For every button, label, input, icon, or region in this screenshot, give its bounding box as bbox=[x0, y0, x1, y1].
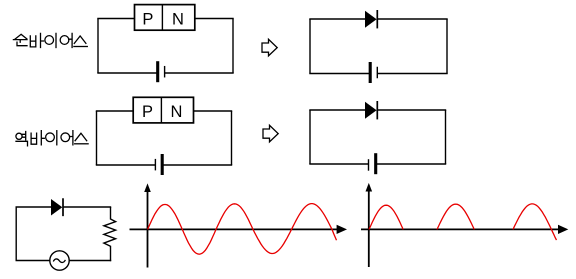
wire: circuit4 bottom-left segment bbox=[309, 163, 368, 165]
label: 순바이어스 (forward bias) bbox=[13, 33, 87, 47]
axis: right graph horizontal (x-axis with arrow) bbox=[361, 225, 568, 234]
svg-text:P: P bbox=[142, 103, 153, 121]
wire: circuit1 right side bbox=[232, 19, 234, 74]
wire: circuit4 top-left segment bbox=[309, 109, 365, 111]
AC source V1 bbox=[50, 251, 69, 270]
wire: circuit5 right-bottom segment bbox=[110, 246, 112, 261]
wire: circuit5 bottom-left segment bbox=[16, 260, 50, 262]
P-N junction box (circuit 1) bbox=[135, 5, 195, 31]
axis: right graph vertical (y-axis with arrow) bbox=[366, 183, 373, 267]
wire: circuit3 top-right segment bbox=[194, 110, 233, 112]
waveform: rectified output hump 3 with tail (red) bbox=[513, 204, 557, 240]
wire: circuit2 right side bbox=[446, 19, 448, 74]
wire: circuit5 top-left segment bbox=[16, 206, 52, 208]
wire: circuit5 top-right segment bbox=[63, 206, 111, 208]
wire: circuit5 left side bbox=[15, 207, 17, 261]
label: 역바이어스 (reverse bias) bbox=[16, 131, 88, 146]
wire: circuit4 top-right segment bbox=[378, 109, 447, 111]
wire: circuit4 right side bbox=[445, 110, 447, 164]
wire: circuit3 bottom-left segment bbox=[96, 164, 156, 166]
battery B2 (forward bias, + plate left) bbox=[370, 62, 377, 83]
block arrow (row 1) bbox=[262, 39, 277, 56]
wire: circuit1 top-right segment bbox=[195, 18, 234, 20]
P-N junction box (circuit 3) bbox=[133, 97, 193, 123]
wire: circuit1 bottom-right segment bbox=[165, 72, 234, 74]
battery B1 (forward bias, + plate left) bbox=[158, 61, 165, 82]
wire: circuit4 bottom-right segment bbox=[376, 163, 447, 165]
diode D3 (rectifier) bbox=[51, 198, 63, 216]
waveform: input sine wave (red) bbox=[148, 204, 337, 255]
svg-text:N: N bbox=[172, 11, 184, 29]
waveform: rectified output hump 1 (red) bbox=[369, 205, 403, 229]
svg-text:N: N bbox=[171, 103, 183, 121]
axis: middle graph vertical (y-axis with arrow) bbox=[144, 183, 151, 267]
wire: circuit3 left side bbox=[96, 111, 98, 165]
wire: circuit4 left side bbox=[309, 110, 311, 164]
battery B4 (reverse bias, - plate left) bbox=[369, 153, 376, 174]
diode D1 (circuit 2) bbox=[365, 10, 377, 28]
diode D2 (circuit 4) bbox=[365, 101, 377, 119]
wire: circuit5 bottom-right segment bbox=[69, 260, 111, 262]
wire: circuit3 bottom-right segment bbox=[162, 164, 232, 166]
wire: circuit2 left side bbox=[309, 19, 311, 74]
svg-text:P: P bbox=[142, 11, 153, 29]
wire: circuit5 right-top segment bbox=[110, 207, 112, 220]
wire: circuit2 bottom-right segment bbox=[377, 73, 447, 75]
wire: circuit2 top-left segment bbox=[309, 18, 365, 20]
wire: circuit3 top-left segment bbox=[96, 110, 134, 112]
block arrow (row 2) bbox=[263, 125, 278, 142]
wire: circuit1 bottom-left segment bbox=[97, 72, 157, 74]
axis: middle graph horizontal (x-axis with arrow) bbox=[130, 225, 348, 234]
wire: circuit1 top-left segment bbox=[97, 18, 135, 20]
wire: circuit1 left side bbox=[97, 19, 99, 74]
resistor R1 (load) bbox=[104, 219, 116, 246]
battery B3 (reverse bias, - plate left) bbox=[155, 154, 162, 175]
wire: circuit2 top-right segment bbox=[378, 18, 448, 20]
wire: circuit2 bottom-left segment bbox=[309, 73, 370, 75]
wire: circuit3 right side bbox=[231, 111, 233, 165]
waveform: rectified output hump 2 (red) bbox=[437, 204, 474, 229]
